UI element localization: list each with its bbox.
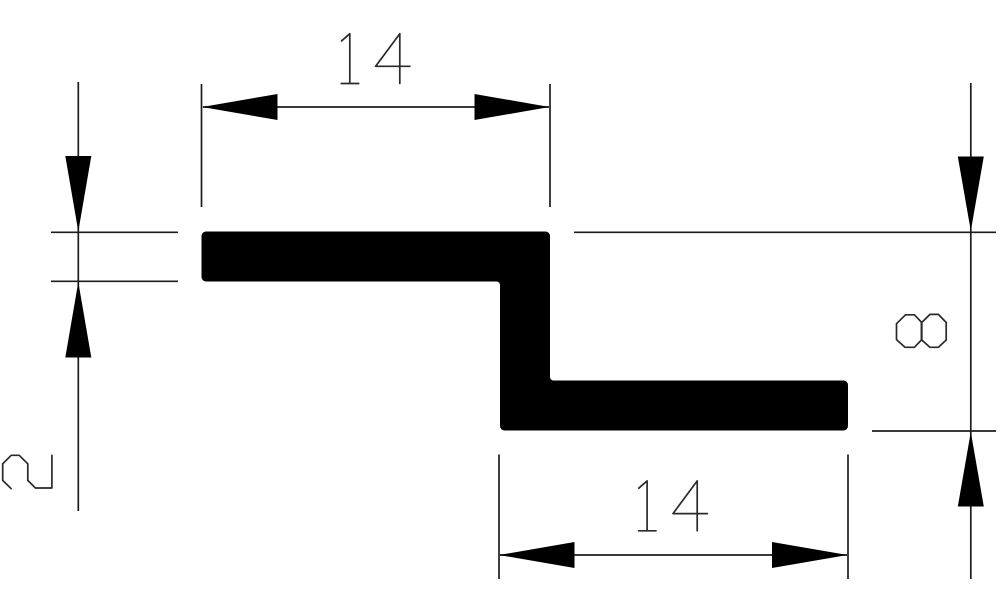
left dimension: top arrowhead (pointing down) xyxy=(65,156,91,232)
left dimension line (vertical) xyxy=(77,82,79,511)
right dimension: top arrowhead (pointing down) xyxy=(958,157,984,232)
left dimension: lower extension line xyxy=(51,280,178,282)
bottom dimension text "14" : digit 4 xyxy=(673,481,707,531)
bottom dimension text "14" : digit 1 xyxy=(639,481,656,531)
right dimension line (vertical) xyxy=(970,83,972,579)
right dimension text "8" (rotated 90): right loop xyxy=(922,314,946,347)
bottom dimension: right arrowhead xyxy=(772,542,848,568)
left dimension: upper extension line xyxy=(51,231,178,233)
left dimension: bottom arrowhead (pointing up) xyxy=(65,282,91,358)
right dimension: upper extension line xyxy=(574,231,996,233)
top dimension line xyxy=(203,106,549,108)
top dimension: right extension line xyxy=(549,84,551,207)
top dimension: left extension line xyxy=(201,84,203,207)
bottom dimension line xyxy=(500,554,847,556)
right dimension: bottom arrowhead (pointing up) xyxy=(958,432,984,507)
top dimension: right arrowhead xyxy=(475,94,550,120)
top dimension: left arrowhead xyxy=(202,94,278,120)
right dimension text "8" (rotated 90): left loop xyxy=(897,315,922,348)
bottom dimension: left arrowhead xyxy=(499,542,575,568)
bottom dimension: left extension line xyxy=(498,455,500,580)
Z-profile solid section xyxy=(202,232,849,431)
right dimension: lower extension line xyxy=(872,430,996,432)
top dimension text "14" : digit 1 xyxy=(341,34,358,84)
left dimension text "2" (rotated 90) xyxy=(3,455,52,488)
top dimension text "14" : digit 4 xyxy=(376,34,410,84)
bottom dimension: right extension line xyxy=(847,455,849,580)
